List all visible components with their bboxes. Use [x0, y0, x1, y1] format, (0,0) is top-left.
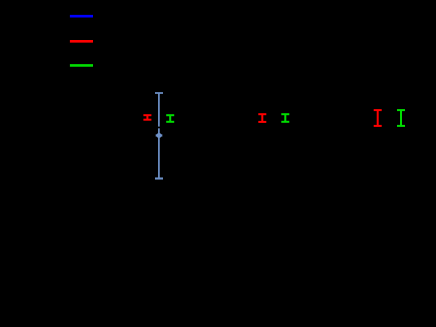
group2 green errorbar: [281, 114, 289, 122]
group1 green errorbar: [166, 115, 174, 122]
bottom cap: [155, 177, 163, 179]
top cap: [155, 92, 163, 94]
legend red line: [70, 40, 93, 43]
marker: [157, 133, 162, 138]
big steelblue errorbar: vertical line: [155, 93, 163, 179]
group2 red errorbar: [258, 114, 266, 122]
black gap on blue line: [157, 127, 161, 129]
group1 red errorbar: [143, 115, 151, 120]
legend green line: [70, 64, 93, 67]
group3 green errorbar: [397, 110, 405, 126]
group3 red errorbar: [374, 110, 382, 126]
xerr right cap: [161, 134, 163, 136]
xerr left cap: [155, 134, 157, 136]
legend blue line: [70, 15, 93, 18]
